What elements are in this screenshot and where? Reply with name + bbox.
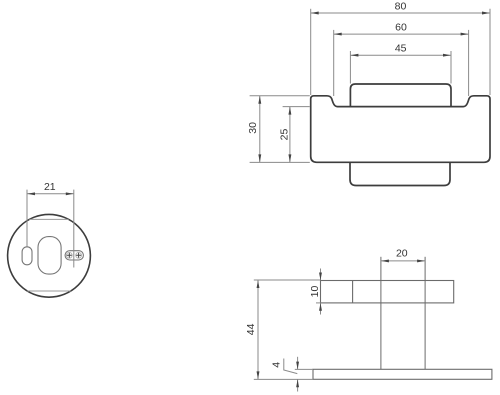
screw cross left: [67, 253, 72, 258]
front view: rear tab visible above body (45 wide): [350, 84, 451, 107]
dim 4: extension line above plate: [295, 368, 313, 370]
side view: post left edge / 20 extension: [380, 257, 382, 370]
dim 4: upper arrow segment: [297, 357, 299, 370]
svg-text:44: 44: [245, 323, 257, 335]
dim 30: dimension line with arrows: [259, 96, 261, 163]
dim 30: extension lines: [250, 95, 310, 97]
dim 80: dimension line with arrows: [311, 12, 490, 14]
svg-text:4: 4: [271, 362, 283, 368]
side view: inner edge in cap: [352, 281, 354, 303]
dim 44: dimension line with arrows: [257, 280, 259, 379]
svg-text:80: 80: [395, 1, 407, 13]
dim 25: extension line: [283, 106, 310, 108]
screw hole right: [76, 252, 82, 258]
svg-text:45: 45: [395, 43, 407, 55]
lower chord edge: [27, 290, 71, 292]
dim 20: dimension line with arrows: [381, 260, 425, 262]
svg-text:10: 10: [309, 286, 321, 298]
dim 21: extension lines: [26, 190, 28, 247]
dim 4: lower arrow segment: [297, 379, 299, 391]
round rosette outline: [8, 214, 91, 297]
svg-text:21: 21: [44, 181, 56, 193]
side view: cap rectangle: [321, 281, 454, 303]
dim 10: upper arrow segment: [320, 269, 322, 281]
dim 45: extension lines: [349, 51, 351, 84]
side view: base plate: [313, 369, 492, 379]
screw slot capsule: [65, 251, 83, 260]
svg-text:30: 30: [247, 122, 259, 134]
dim 80: extension lines: [310, 9, 312, 95]
left small slot: [22, 247, 32, 265]
dim 10: lower extension stub: [316, 302, 321, 304]
svg-text:25: 25: [279, 129, 291, 141]
screw cross right: [76, 253, 81, 258]
dim 60: extension lines: [333, 30, 335, 96]
side view: post right edge / 20 extension: [424, 257, 426, 370]
dim 25: dimension line with arrows: [289, 107, 291, 163]
front view: lower tab below body (45 wide): [350, 162, 450, 185]
dim 4: leader line: [284, 359, 298, 374]
dim 44: extension lines: [254, 279, 321, 281]
upper chord edge: [29, 218, 68, 220]
dim 10: lower arrow segment: [320, 303, 322, 315]
dim 60: dimension line with arrows: [334, 33, 469, 35]
screw hole left: [66, 252, 72, 258]
svg-text:60: 60: [395, 22, 407, 34]
central slot: [38, 237, 61, 275]
dim 45: dimension line with arrows: [350, 54, 451, 56]
front view: hook body outline (80 wide with ears): [311, 96, 490, 163]
dim 21: dimension line with arrows: [27, 193, 74, 195]
svg-text:20: 20: [396, 248, 408, 260]
